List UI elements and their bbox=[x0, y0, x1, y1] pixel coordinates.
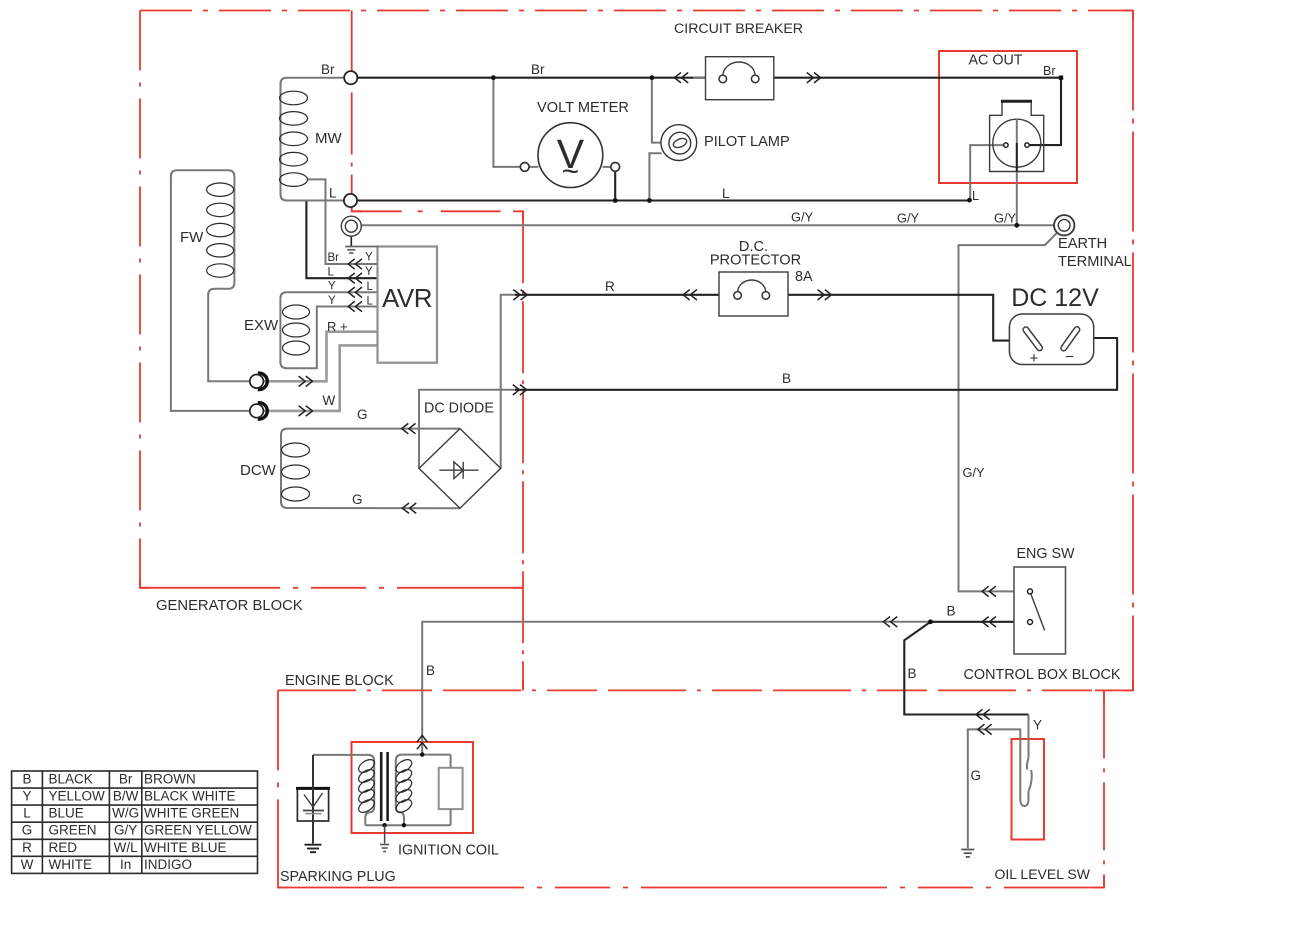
wire MW coil tap to AVR pin1 bbox=[308, 179, 378, 264]
wire G/Y earth line from left earth symbol to earth terminal bbox=[361, 224, 1054, 226]
svg-text:L: L bbox=[367, 295, 374, 307]
svg-text:VOLT METER: VOLT METER bbox=[537, 100, 629, 116]
svg-text:B: B bbox=[426, 663, 435, 678]
svg-text:In: In bbox=[120, 857, 131, 872]
AC OUT red outline box bbox=[939, 51, 1077, 183]
node L terminal circle bbox=[344, 194, 357, 207]
svg-text:EARTH: EARTH bbox=[1058, 236, 1107, 252]
earth ring terminal (generator) bbox=[341, 216, 361, 236]
svg-text:W: W bbox=[323, 393, 336, 408]
svg-text:L: L bbox=[722, 186, 730, 201]
svg-text:Y: Y bbox=[22, 789, 31, 804]
svg-text:L: L bbox=[972, 189, 979, 203]
wire Br line from MW node to AC OUT bbox=[351, 77, 1061, 79]
svg-text:CONTROL BOX BLOCK: CONTROL BOX BLOCK bbox=[964, 667, 1121, 683]
svg-text:PROTECTOR: PROTECTOR bbox=[710, 253, 801, 269]
node Br terminal circle bbox=[344, 71, 357, 84]
D.C. protector bbox=[719, 272, 788, 316]
ENG SW engine switch bbox=[1014, 567, 1066, 654]
wire B diagonal down to oil level switch bbox=[904, 622, 1028, 715]
svg-text:Br: Br bbox=[1043, 64, 1056, 78]
wire volt meter right lead bbox=[603, 166, 616, 168]
wire pilot lamp lower lead to L line bbox=[649, 153, 661, 200]
svg-text:W/G: W/G bbox=[112, 806, 139, 821]
svg-text:GREEN: GREEN bbox=[49, 823, 97, 838]
svg-text:W: W bbox=[21, 857, 34, 872]
svg-text:G: G bbox=[352, 492, 363, 507]
DC diode bridge bbox=[419, 429, 501, 509]
svg-text:Br: Br bbox=[119, 772, 133, 787]
wire volt meter right drop to L line bbox=[614, 167, 616, 201]
AVR pin chevrons bbox=[348, 259, 355, 269]
svg-text:SPARKING PLUG: SPARKING PLUG bbox=[280, 869, 396, 885]
generator block border bottom bbox=[140, 587, 523, 589]
red border corner patches bbox=[140, 11, 1133, 888]
colour code table bbox=[12, 771, 258, 873]
svg-text:INDIGO: INDIGO bbox=[144, 857, 192, 872]
earth terminal ring bbox=[1054, 215, 1074, 235]
oil level switch internal path bbox=[968, 715, 1029, 849]
AC OUT left pin wire to L bbox=[970, 145, 1006, 200]
svg-text:L: L bbox=[328, 266, 335, 278]
svg-text:ENG SW: ENG SW bbox=[1017, 546, 1075, 562]
wire volt meter left lead bbox=[493, 78, 538, 167]
generator block border top bbox=[140, 10, 1133, 12]
svg-text:G: G bbox=[357, 407, 368, 422]
svg-text:W/L: W/L bbox=[114, 840, 138, 855]
svg-text:FW: FW bbox=[180, 229, 204, 246]
svg-text:B: B bbox=[782, 371, 791, 386]
engine block top / control box bottom border bbox=[278, 689, 1133, 691]
EXW coil winding bbox=[280, 292, 377, 368]
junction dots bbox=[491, 75, 496, 80]
FW coil winding bbox=[171, 170, 265, 411]
svg-text:B/W: B/W bbox=[113, 789, 139, 804]
svg-text:G: G bbox=[22, 823, 33, 838]
engine block border bottom bbox=[278, 887, 1104, 889]
svg-text:L: L bbox=[367, 281, 374, 293]
ignition coil bbox=[417, 735, 427, 742]
wire B line from DC diode to DC12V minus prong bbox=[419, 390, 517, 469]
wire AC OUT earth pin drop to G/Y line bbox=[1016, 172, 1018, 226]
svg-text:CIRCUIT BREAKER: CIRCUIT BREAKER bbox=[674, 21, 803, 37]
svg-text:Br: Br bbox=[531, 62, 545, 77]
ground symbol under oil level G wire bbox=[961, 850, 974, 857]
svg-text:BLACK: BLACK bbox=[49, 772, 93, 787]
svg-text:G/Y: G/Y bbox=[963, 465, 986, 480]
svg-text:−: − bbox=[1065, 349, 1074, 366]
svg-text:B: B bbox=[908, 666, 917, 681]
svg-text:IGNITION COIL: IGNITION COIL bbox=[398, 843, 499, 859]
svg-text:WHITE: WHITE bbox=[49, 857, 93, 872]
diode symbol bbox=[439, 469, 478, 471]
svg-text:G/Y: G/Y bbox=[114, 823, 137, 838]
svg-text:WHITE GREEN: WHITE GREEN bbox=[144, 806, 239, 821]
svg-text:OIL LEVEL SW: OIL LEVEL SW bbox=[995, 866, 1091, 882]
svg-text:R: R bbox=[605, 279, 615, 294]
wire B from ignition coil to control box junction bbox=[422, 622, 930, 755]
wire L tap to AVR pin2 (black) bbox=[306, 201, 377, 279]
svg-text:+: + bbox=[1030, 350, 1039, 367]
engine block border right (oil level sw side) bbox=[1103, 690, 1105, 887]
oil level switch blade bbox=[1027, 758, 1032, 791]
svg-text:WHITE BLUE: WHITE BLUE bbox=[144, 840, 227, 855]
generator block inner border vertical at x=523 bbox=[522, 211, 524, 690]
svg-text:G/Y: G/Y bbox=[791, 210, 814, 225]
svg-text:DCW: DCW bbox=[240, 462, 277, 479]
svg-text:L: L bbox=[329, 186, 337, 201]
svg-text:Y: Y bbox=[365, 266, 373, 278]
wire L line from L node to AC OUT drop bbox=[351, 199, 970, 201]
svg-text:Br: Br bbox=[321, 62, 335, 77]
svg-text:BLUE: BLUE bbox=[49, 806, 84, 821]
svg-text:PILOT LAMP: PILOT LAMP bbox=[704, 134, 790, 150]
brush connector at y=410.9 bbox=[258, 403, 267, 419]
circuit breaker bbox=[693, 77, 723, 79]
ground symbol below earth ring bbox=[350, 236, 352, 246]
svg-text:L: L bbox=[23, 806, 31, 821]
wire R line from DC diode to DC12V plus prong bbox=[501, 295, 517, 469]
svg-text:BROWN: BROWN bbox=[144, 772, 196, 787]
MW coil winding bbox=[281, 78, 345, 201]
svg-text:BLACK WHITE: BLACK WHITE bbox=[144, 789, 236, 804]
svg-text:R: R bbox=[22, 840, 32, 855]
generator block inner border vertical at x=352 bbox=[351, 11, 353, 212]
svg-text:DC 12V: DC 12V bbox=[1011, 284, 1099, 312]
svg-text:AVR: AVR bbox=[382, 283, 432, 313]
svg-text:ENGINE BLOCK: ENGINE BLOCK bbox=[285, 673, 394, 689]
brush connector at y=381.3 bbox=[258, 373, 267, 389]
control box block border right bbox=[1132, 11, 1134, 691]
svg-text:8A: 8A bbox=[795, 269, 813, 285]
svg-text:GREEN YELLOW: GREEN YELLOW bbox=[144, 823, 252, 838]
op-amp AVR block bbox=[378, 247, 438, 363]
volt meter bbox=[538, 123, 603, 188]
svg-text:Br: Br bbox=[328, 252, 340, 264]
svg-text:B: B bbox=[947, 604, 956, 619]
svg-text:Y: Y bbox=[1033, 718, 1042, 733]
svg-text:~: ~ bbox=[562, 155, 580, 188]
svg-text:Y: Y bbox=[328, 295, 336, 307]
engine block border left bbox=[277, 690, 279, 887]
svg-text:DC DIODE: DC DIODE bbox=[424, 401, 494, 417]
oil level switch chevrons/labels bbox=[976, 709, 983, 719]
svg-text:MW: MW bbox=[315, 130, 342, 147]
svg-text:Y: Y bbox=[365, 252, 373, 264]
svg-text:RED: RED bbox=[49, 840, 78, 855]
svg-text:G/Y: G/Y bbox=[897, 211, 920, 226]
sparking plug bbox=[297, 788, 328, 821]
DCW coil winding bbox=[281, 429, 460, 509]
svg-text:GENERATOR BLOCK: GENERATOR BLOCK bbox=[156, 598, 303, 614]
svg-text:G/Y: G/Y bbox=[994, 211, 1017, 226]
svg-text:B: B bbox=[22, 772, 31, 787]
socket body outline bbox=[990, 101, 1044, 171]
wire pilot lamp upper lead to Br line bbox=[652, 78, 662, 143]
svg-text:TERMINAL: TERMINAL bbox=[1058, 254, 1132, 270]
svg-text:YELLOW: YELLOW bbox=[49, 789, 106, 804]
svg-text:EXW: EXW bbox=[244, 317, 279, 334]
generator block inner border horizontal at y=211 bbox=[352, 210, 523, 212]
oil level switch red outline box bbox=[1012, 739, 1045, 840]
svg-text:AC OUT: AC OUT bbox=[969, 53, 1023, 69]
svg-text:R +: R + bbox=[327, 319, 348, 334]
ignition coil red outline box bbox=[352, 742, 474, 833]
wire R from AVR through connector bbox=[265, 332, 378, 382]
wire G/Y branch from earth terminal down to ENG SW bbox=[959, 233, 1058, 592]
svg-text:Y: Y bbox=[328, 280, 336, 292]
wire W from AVR through connector bbox=[265, 345, 378, 411]
AC OUT Br drop (black) bbox=[1027, 78, 1061, 145]
pilot lamp bbox=[661, 125, 697, 161]
generator block border left bbox=[139, 11, 141, 589]
wire B junction to ENG SW lower contact bbox=[931, 621, 1028, 623]
svg-text:G: G bbox=[971, 768, 982, 783]
